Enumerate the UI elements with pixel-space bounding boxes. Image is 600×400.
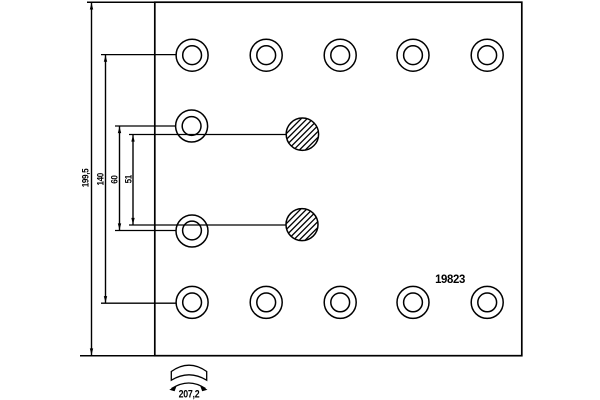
svg-text:199,5: 199,5: [80, 168, 91, 187]
svg-text:51: 51: [123, 175, 134, 184]
svg-text:19823: 19823: [435, 272, 466, 287]
svg-text:207,2: 207,2: [179, 389, 200, 400]
svg-text:140: 140: [95, 173, 106, 186]
svg-text:60: 60: [109, 175, 120, 184]
